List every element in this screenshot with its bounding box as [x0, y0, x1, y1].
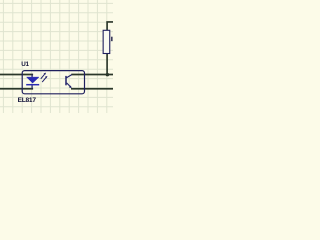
- svg-text:EL817: EL817: [18, 97, 37, 104]
- optocoupler U1 package outline: [22, 71, 84, 94]
- LED cathode bar: [26, 84, 39, 86]
- wire cathode net (left bottom): [0, 88, 33, 90]
- resistor R body: [103, 30, 110, 53]
- emitter arrowhead: [69, 86, 72, 88]
- emission arrow 1: [41, 74, 45, 79]
- phototransistor base bar: [65, 76, 67, 85]
- collector lead: [67, 75, 72, 78]
- wire resistor top: [107, 22, 113, 31]
- LED cathode lead: [31, 85, 33, 88]
- LED anode lead: [31, 75, 33, 78]
- emitter lead: [67, 83, 72, 88]
- emission arrow 2: [42, 78, 46, 83]
- wire resistor bottom lead: [106, 53, 108, 74]
- junction dot: [106, 73, 110, 77]
- svg-text:U1: U1: [21, 61, 29, 68]
- LED triangle: [27, 77, 40, 83]
- wire anode net (left top): [0, 74, 33, 76]
- wire collector net (right top): [71, 74, 113, 76]
- wire emitter net (right bottom): [71, 88, 113, 90]
- resistor label fragment (clipped at edge): [111, 37, 112, 41]
